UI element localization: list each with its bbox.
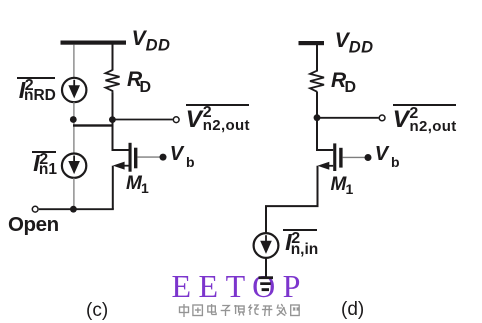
wire: left branch vertical from VDD rail to InRD source (c) [73, 45, 75, 79]
wire: output wire to terminal (c) [112, 119, 172, 121]
wire: VDD rail to resistor RD (d) [316, 45, 318, 72]
resistor RD (c) [106, 70, 120, 92]
node dot bottom (c) [70, 206, 77, 213]
VDD rail bar (c) [61, 41, 127, 45]
wire: bottom horizontal to open terminal (c) [39, 208, 114, 210]
label Vb (c) [170, 144, 183, 164]
current source In1 (c) [62, 154, 86, 178]
watermark Chinese text (drawn strokes) [178, 303, 314, 319]
current source InRD (c) [62, 78, 86, 102]
wire: output wire to terminal (d) [317, 117, 379, 119]
Vb terminal dot (c) [160, 154, 167, 161]
label VDD (c) [132, 28, 171, 54]
wire: gate of M1 to Vb (d) [343, 156, 368, 158]
label Vn2,out^2 with overline (d) [393, 104, 456, 106]
ground symbol (d) [259, 276, 274, 291]
open terminal circle (c) [32, 206, 38, 212]
wire: left branch vertical between current sources (c) [73, 102, 75, 154]
transistor M1 gate bar (c) [134, 148, 137, 169]
label (d) [341, 300, 364, 319]
resistor RD (d) [310, 71, 324, 92]
label M1 (d) [331, 175, 347, 194]
wire: left branch vertical from In1 to bottom node (c) [73, 178, 75, 209]
wire: resistor RD bottom to drain node (d) [316, 92, 318, 118]
current source In,in (d) [254, 233, 279, 258]
output terminal circle (c) [173, 117, 179, 123]
label Vb (d) [375, 144, 388, 164]
label Vn2,out^2 with overline (c) [186, 104, 249, 106]
VDD rail bar (d) [299, 41, 325, 45]
label InRD^2 with overline (c) [17, 77, 55, 79]
watermark EETOP [172, 270, 308, 302]
wire: source of M1 with arrow (c) [113, 162, 129, 210]
label VDD (d) [335, 30, 374, 56]
transistor M1 gate bar (d) [339, 148, 342, 168]
label M1 (c) [126, 174, 142, 193]
wire: resistor RD bottom to drain node (c) [112, 92, 114, 119]
wire: main branch VDD to resistor RD (c) [112, 45, 114, 71]
wire: source of M1 with arrow and down to current source (d) [266, 162, 333, 234]
wire: drain of M1 (d) [317, 118, 333, 150]
node dot left branch (c) [70, 116, 77, 123]
Vb terminal dot (d) [365, 154, 372, 161]
label RD (c) [127, 69, 142, 90]
wire: horizontal connecting left branch to drain branch (c) [73, 124, 113, 126]
label In1^2 with overline (c) [32, 151, 56, 153]
transistor M1 channel bar (c) [129, 143, 132, 172]
label RD (d) [331, 70, 346, 91]
node dot drain (d) [314, 114, 321, 121]
wire: drain of M1 (c) [113, 120, 129, 151]
label (c) [86, 301, 108, 320]
wire: gate of M1 to Vb (c) [137, 156, 163, 158]
label In,in^2 with overline (d) [283, 229, 317, 231]
wire: current source to ground (d) [265, 258, 267, 277]
label Open (c) [8, 215, 59, 236]
transistor M1 channel bar (d) [333, 143, 336, 171]
node dot drain (c) [109, 116, 116, 123]
output terminal circle (d) [379, 115, 385, 121]
